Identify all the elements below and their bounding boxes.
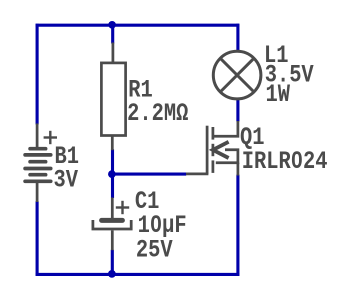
lamp L1 name label — [264, 41, 288, 70]
wire: top junction down to resistor R1 top — [111, 25, 114, 43]
wire: resistor R1 bottom to middle junction — [111, 149, 114, 174]
wire: lamp bottom to mosfet drain pin — [236, 99, 239, 122]
lamp L1 value label 3.5V — [265, 61, 314, 90]
junction: middle node (R1 / C1 / gate) — [108, 170, 116, 178]
resistor R1 value label 2.2Mohm — [127, 99, 188, 128]
lamp L1 value label 1W — [266, 80, 291, 109]
junction: bottom node (rail / C1) — [108, 270, 116, 278]
transistor Q1 value label IRLR024 — [242, 147, 328, 176]
bulk connection with source — [216, 150, 238, 163]
resistor R1 — [101, 43, 125, 151]
wire: middle junction down to capacitor C1 — [111, 174, 114, 198]
channel dash top — [212, 127, 215, 140]
battery B1 name label — [55, 142, 79, 171]
wire: top rail from left corner to right corner — [36, 24, 240, 27]
white patch to hide mono zero dot in IRLR024 — [295, 157, 299, 162]
drain connection — [213, 121, 238, 136]
svg-text:3V: 3V — [54, 166, 79, 195]
resistor R1 name label — [128, 76, 152, 105]
channel dash bottom — [212, 160, 215, 173]
wire: left rail lower (battery - lead down to bottom corner) — [36, 201, 39, 276]
gate lead — [186, 173, 208, 176]
battery B1 value label 3V — [54, 166, 79, 195]
capacitor C1 name label — [135, 187, 159, 216]
svg-text:1W: 1W — [266, 80, 291, 109]
transistor Q1 (n-channel mosfet) — [186, 121, 238, 176]
bulk arrow — [213, 142, 229, 158]
battery B1 plus sign — [44, 131, 57, 144]
wire: mosfet source pin down to bottom rail — [236, 175, 239, 276]
junction: top node (rail / R1) — [108, 21, 116, 29]
wire: right rail upper (top corner to lamp) — [236, 24, 239, 52]
capacitor C1 value label 10uF — [138, 211, 187, 240]
svg-text:25V: 25V — [136, 236, 173, 265]
lamp L1 — [213, 51, 261, 99]
svg-text:IRLR024: IRLR024 — [242, 147, 328, 176]
svg-text:2.2MΩ: 2.2MΩ — [127, 99, 188, 128]
capacitor C1 value label 25V — [136, 236, 173, 265]
wire: left rail upper (top corner down to battery + lead) — [36, 24, 39, 125]
capacitor C1 (polarized) — [93, 198, 131, 251]
battery B1 — [25, 124, 51, 203]
top plate — [102, 218, 123, 223]
wire: gate branch from middle junction to mosfet gate — [113, 173, 187, 176]
bottom plate tray — [93, 220, 131, 229]
wire: bottom rail — [36, 273, 240, 276]
white patch to hide mono zero dot in 10uF — [154, 221, 158, 226]
transistor Q1 name label — [240, 123, 264, 152]
gate bar — [206, 126, 209, 174]
source pin — [237, 163, 240, 176]
capacitor C1 plus sign — [116, 201, 129, 214]
wire: capacitor C1 bottom to bottom junction — [111, 250, 114, 275]
channel dash middle — [212, 144, 215, 156]
